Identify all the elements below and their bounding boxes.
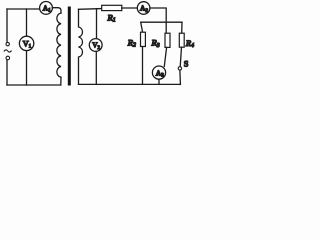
transformer core (68, 7, 71, 86)
ammeter A3 (152, 66, 165, 79)
AC source tilde symbol (4, 50, 11, 52)
svg-text:R4: R4 (185, 38, 194, 49)
transformer secondary winding (79, 9, 83, 84)
voltmeter V1 branch wire upper (26, 9, 28, 36)
wire A3 to bottom (158, 79, 160, 84)
voltmeter V2 branch wire upper (96, 9, 98, 39)
svg-text:R3: R3 (151, 38, 160, 49)
wire secondary bottom (79, 83, 181, 85)
wire R4 to switch (180, 47, 181, 66)
voltmeter V2 (89, 39, 102, 52)
wire A1 to transformer primary (52, 8, 61, 13)
AC source terminal lower (6, 56, 10, 60)
wire R1 to A2 (122, 7, 138, 9)
wire primary bottom (7, 84, 61, 86)
ammeter A1 (40, 2, 53, 15)
svg-text:S: S (184, 59, 189, 68)
switch S contact (178, 67, 181, 70)
resistor R2 (141, 32, 146, 46)
voltmeter V1 (19, 36, 33, 50)
resistor R3 (165, 33, 170, 47)
wire primary left vertical upper (6, 9, 8, 42)
wire bus to R4 (181, 22, 183, 33)
ammeter A2 (137, 2, 150, 15)
wire switch to bottom corner (179, 70, 182, 84)
wire A2 to right corner (150, 8, 166, 33)
transformer primary winding (57, 13, 61, 85)
wire primary left vertical lower (6, 60, 8, 85)
svg-text:R2: R2 (127, 37, 136, 48)
resistor R1 (102, 5, 122, 10)
wire secondary top (79, 8, 102, 11)
resistor R4 (179, 33, 184, 47)
wire R3 to A3 (164, 47, 166, 66)
voltmeter V2 branch wire lower (95, 51, 97, 84)
AC source terminal upper (6, 42, 9, 45)
voltmeter V1 branch wire lower (26, 51, 28, 85)
wire bus horizontal (141, 21, 182, 23)
svg-text:R1: R1 (107, 13, 116, 24)
wire primary top left (7, 8, 40, 10)
wire bus to R2 (141, 22, 143, 32)
wire R2 to bottom (142, 47, 144, 85)
